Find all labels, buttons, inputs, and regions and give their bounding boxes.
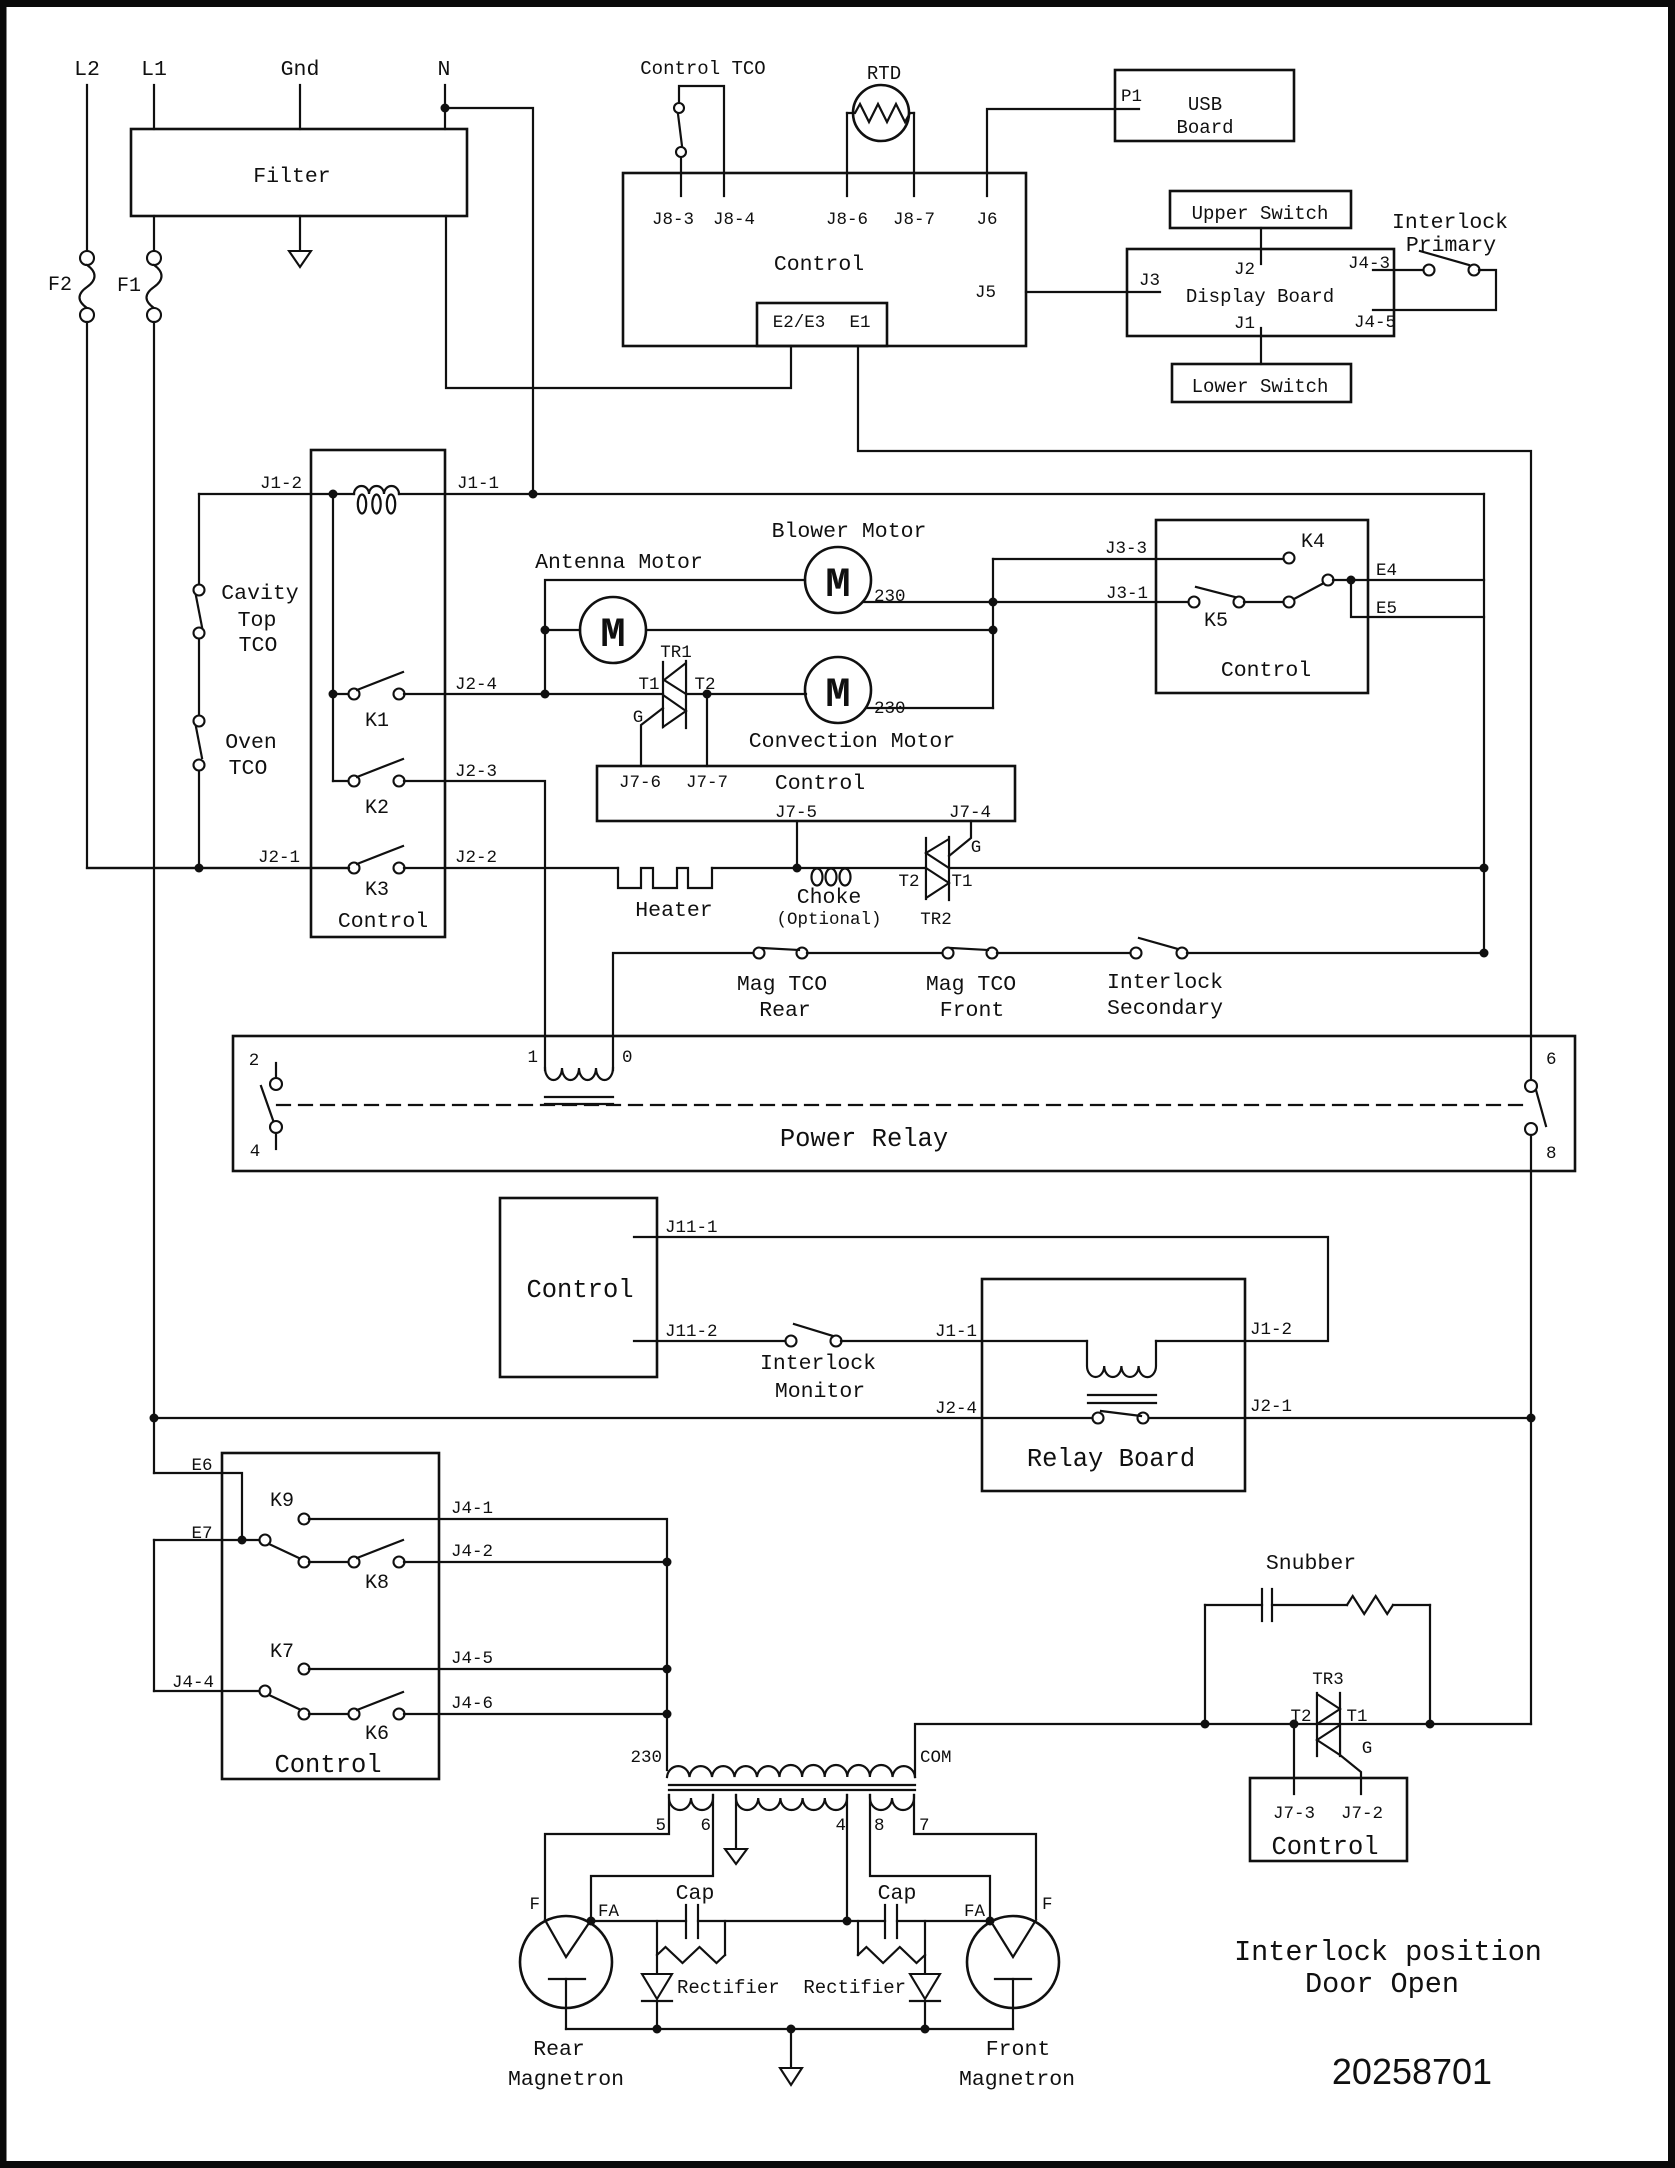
junction J7-3 tap <box>1290 1720 1299 1729</box>
junction rectifier front bottom <box>921 2025 930 2034</box>
motor antenna <box>580 597 646 663</box>
wire pin4 drop <box>846 1795 848 1921</box>
svg-text:Interlock: Interlock <box>1107 971 1223 995</box>
svg-text:Cap: Cap <box>676 1882 715 1906</box>
svg-text:Primary: Primary <box>1406 234 1496 258</box>
wire N below filter to E2/E3 <box>446 216 791 388</box>
junction snubber right <box>1426 1720 1435 1729</box>
svg-text:2: 2 <box>249 1051 260 1071</box>
svg-text:Control: Control <box>1221 659 1311 683</box>
switch mag TCO front <box>943 948 954 959</box>
ground HV center tap <box>735 1795 737 1849</box>
junction rear FA <box>587 1917 596 1926</box>
wire convection right <box>866 707 993 709</box>
relay board box <box>982 1279 1245 1491</box>
wire mag row right <box>997 952 1131 954</box>
switch K6 <box>349 1709 360 1720</box>
wire J1 <box>1260 328 1262 364</box>
svg-text:J11-2: J11-2 <box>665 1322 718 1342</box>
svg-text:K6: K6 <box>365 1723 389 1746</box>
svg-text:Control: Control <box>1271 1833 1378 1862</box>
wire TCO chain middle <box>198 639 200 715</box>
svg-text:J8-7: J8-7 <box>893 210 935 230</box>
wire cathode bottom row <box>566 2028 1013 2030</box>
wire J7-7 drop <box>706 694 708 766</box>
svg-text:Rectifier: Rectifier <box>803 1977 906 1999</box>
connector E2/E3 E1 box <box>757 303 887 346</box>
svg-text:FA: FA <box>598 1902 620 1922</box>
switch power relay left <box>275 1063 277 1078</box>
svg-text:Rear: Rear <box>533 2038 585 2062</box>
wire J7-5 drop <box>796 821 798 868</box>
wire pin7 to front F <box>914 1795 1036 1918</box>
switch relay board contact <box>1093 1413 1104 1424</box>
TCO chain wire top <box>198 494 200 585</box>
wire J4-1 row <box>309 1519 667 1770</box>
wire TCO chain bottom <box>198 771 200 868</box>
transformer relay board coil <box>1087 1341 1156 1377</box>
svg-text:L1: L1 <box>141 58 167 82</box>
choke coil <box>812 869 823 886</box>
svg-text:J4-1: J4-1 <box>451 1499 493 1519</box>
svg-text:RTD: RTD <box>867 63 901 85</box>
svg-text:J4-6: J4-6 <box>451 1694 493 1714</box>
svg-text:Cavity: Cavity <box>221 582 299 606</box>
svg-text:J4-2: J4-2 <box>451 1542 493 1562</box>
motor convection <box>805 657 871 723</box>
junction snubber left <box>1201 1720 1210 1729</box>
wire antenna right <box>646 629 993 631</box>
junction K1 feed <box>329 690 338 699</box>
svg-text:J3: J3 <box>1139 271 1160 291</box>
junction J4-2 rail <box>663 1558 672 1567</box>
magnetron rear <box>520 1916 612 2008</box>
pin J8-6 leg <box>846 113 848 196</box>
wire J4-4 row <box>154 1690 260 1692</box>
wire E7 row <box>154 1539 260 1541</box>
svg-text:K4: K4 <box>1301 531 1325 554</box>
wire L1 drop <box>153 85 155 129</box>
wire J4-3 <box>1373 269 1424 271</box>
svg-text:Relay Board: Relay Board <box>1027 1445 1195 1474</box>
junction J7-7 tap <box>703 690 712 699</box>
transformer HV secondary winding <box>736 1795 847 1810</box>
svg-text:J2-1: J2-1 <box>1250 1397 1292 1417</box>
svg-text:0: 0 <box>622 1048 633 1068</box>
svg-text:230: 230 <box>630 1748 662 1768</box>
svg-text:COM: COM <box>920 1748 952 1768</box>
svg-text:E2/E3: E2/E3 <box>773 313 826 333</box>
wire COM riser <box>915 1724 1531 1777</box>
heater element <box>618 868 712 888</box>
rectifier front <box>910 1974 940 1999</box>
svg-text:Interlock position: Interlock position <box>1234 1936 1542 1969</box>
control box K1 K2 K3 <box>311 450 445 937</box>
svg-text:J3-3: J3-3 <box>1105 539 1147 559</box>
svg-text:Monitor: Monitor <box>775 1380 865 1404</box>
svg-text:Magnetron: Magnetron <box>959 2068 1075 2092</box>
resistor snubber <box>1272 1604 1347 1606</box>
svg-text:K7: K7 <box>270 1641 294 1664</box>
control box K4 K5 <box>1156 520 1368 693</box>
filter box <box>131 129 467 216</box>
svg-text:20258701: 20258701 <box>1332 2051 1492 2092</box>
lower switch box <box>1172 364 1351 402</box>
switch K3 <box>349 863 360 874</box>
junction J3-1 column <box>989 598 998 607</box>
svg-text:G: G <box>971 838 982 858</box>
wire cap to pin4 <box>698 1920 885 1922</box>
svg-text:K9: K9 <box>270 1490 294 1513</box>
control box K6-K9 <box>222 1453 439 1779</box>
wire K4K5 feed column <box>992 559 994 708</box>
wire long J2-4 row <box>154 1417 1092 1419</box>
svg-text:J2-3: J2-3 <box>455 762 497 782</box>
wire N drop <box>444 85 446 129</box>
svg-text:E1: E1 <box>849 313 870 333</box>
wire K5 middle <box>1244 601 1284 603</box>
svg-text:Rear: Rear <box>759 999 811 1023</box>
wire right rail J1-1 column <box>1483 494 1485 953</box>
wire J4-5 loop <box>1373 270 1496 310</box>
resistor rear bleed <box>656 1921 658 1974</box>
svg-text:N: N <box>438 58 451 82</box>
svg-text:Choke: Choke <box>797 886 862 910</box>
svg-text:Control: Control <box>274 1751 381 1780</box>
junction rectifier rear bottom <box>653 2025 662 2034</box>
junction right rail J2-1 <box>1527 1414 1536 1423</box>
junction secondary rail <box>1480 949 1489 958</box>
svg-text:J3-1: J3-1 <box>1106 584 1148 604</box>
wire heater to choke <box>712 867 926 869</box>
svg-text:J8-3: J8-3 <box>652 210 694 230</box>
motor blower <box>805 547 871 613</box>
svg-text:Blower Motor: Blower Motor <box>772 520 927 544</box>
svg-text:8: 8 <box>1546 1144 1557 1164</box>
resistor front bleed <box>857 1921 859 1955</box>
svg-text:6: 6 <box>700 1816 711 1836</box>
svg-text:Control: Control <box>338 910 428 934</box>
svg-text:Upper Switch: Upper Switch <box>1192 203 1329 225</box>
svg-text:M: M <box>825 671 850 719</box>
wire common to E4 <box>1333 579 1484 581</box>
svg-text:1: 1 <box>527 1048 538 1068</box>
svg-text:J6: J6 <box>976 210 997 230</box>
svg-text:Secondary: Secondary <box>1107 997 1223 1021</box>
svg-text:T1: T1 <box>638 675 659 695</box>
wire J5 to J3 <box>1026 291 1160 293</box>
wire L1 down to E6 corner <box>153 322 155 1473</box>
transformer HV core <box>669 1784 915 1786</box>
junction J4-6 rail <box>663 1710 672 1719</box>
capacitor snubber <box>1205 1604 1262 1606</box>
wire J4-5 row <box>309 1668 667 1670</box>
svg-text:L2: L2 <box>74 58 100 82</box>
wire mag TCO row <box>613 953 754 1070</box>
svg-text:TCO: TCO <box>239 634 278 658</box>
svg-text:J1-2: J1-2 <box>260 474 302 494</box>
svg-text:K1: K1 <box>365 710 389 733</box>
junction N column to row <box>529 490 538 499</box>
wire K1 stub <box>333 693 349 695</box>
wire J2-1 row left <box>87 867 349 869</box>
wire J2-3 row to transformer column <box>404 781 545 1070</box>
svg-text:K3: K3 <box>365 879 389 902</box>
svg-text:TR3: TR3 <box>1312 1670 1344 1690</box>
svg-text:Mag TCO: Mag TCO <box>926 973 1016 997</box>
svg-text:K5: K5 <box>1204 610 1228 633</box>
wire E7 to J4-4 column <box>153 1540 155 1691</box>
svg-text:Board: Board <box>1176 117 1233 139</box>
wire coil feed column <box>332 494 334 781</box>
junction blower column to J2-4 <box>541 690 550 699</box>
svg-text:J1-2: J1-2 <box>1250 1320 1292 1340</box>
wire J11-2 <box>634 1340 786 1342</box>
svg-text:Lower Switch: Lower Switch <box>1192 376 1329 398</box>
switch interlock secondary <box>1131 948 1142 959</box>
ground bottom <box>790 2029 792 2068</box>
svg-text:E5: E5 <box>1376 599 1397 619</box>
svg-text:FA: FA <box>964 1902 986 1922</box>
wire J4-6 row <box>404 1713 667 1715</box>
control box J11 <box>500 1198 657 1377</box>
svg-text:(Optional): (Optional) <box>776 910 881 930</box>
svg-text:Oven: Oven <box>225 731 277 755</box>
wire E6 <box>154 1473 242 1540</box>
junction J7-5 choke row <box>793 864 802 873</box>
svg-text:Mag TCO: Mag TCO <box>737 973 827 997</box>
svg-text:F1: F1 <box>117 275 141 298</box>
switch K2 <box>349 776 360 787</box>
svg-text:4: 4 <box>250 1142 261 1162</box>
wire interlock secondary right <box>1187 952 1484 954</box>
wire front cap to FA <box>897 1920 990 1922</box>
wire J1-2 / J1-1 row <box>199 493 354 495</box>
svg-text:Power Relay: Power Relay <box>780 1125 948 1154</box>
wire pin5 to rear F <box>545 1795 669 1918</box>
svg-text:Door Open: Door Open <box>1305 1968 1459 2001</box>
svg-text:J2: J2 <box>1234 260 1255 280</box>
svg-text:J8-6: J8-6 <box>826 210 868 230</box>
svg-text:Interlock: Interlock <box>1392 211 1508 235</box>
wire pin6 to rear FA <box>591 1795 713 1921</box>
junction E4/E5 <box>1347 576 1356 585</box>
junction TR2 row right rail <box>1480 864 1489 873</box>
svg-text:G: G <box>1362 1739 1373 1759</box>
svg-text:J2-1: J2-1 <box>258 848 300 868</box>
svg-text:J1-1: J1-1 <box>457 474 499 494</box>
svg-text:F: F <box>1042 1895 1053 1915</box>
wire J2-2 row to heater <box>404 867 618 869</box>
svg-text:Front: Front <box>986 2038 1051 2062</box>
svg-text:J4-5: J4-5 <box>451 1649 493 1669</box>
svg-text:Control TCO: Control TCO <box>640 58 765 80</box>
wire L2 down to J2-1 row <box>87 322 349 868</box>
switch power relay right <box>1525 1080 1537 1092</box>
svg-text:J2-4: J2-4 <box>455 675 497 695</box>
junction front FA <box>986 1917 995 1926</box>
svg-text:P1: P1 <box>1121 87 1142 107</box>
svg-text:Cap: Cap <box>878 1882 917 1906</box>
svg-text:Snubber: Snubber <box>1266 1552 1356 1576</box>
wire Gnd drop <box>299 85 301 129</box>
USB board <box>1115 70 1294 141</box>
svg-text:6: 6 <box>1546 1050 1557 1070</box>
svg-text:Rectifier: Rectifier <box>677 1977 780 1999</box>
junction J4-5 rail <box>663 1665 672 1674</box>
svg-text:Convection Motor: Convection Motor <box>749 730 955 754</box>
switch K5 <box>1189 597 1200 608</box>
upper switch box <box>1170 191 1351 228</box>
svg-text:Control: Control <box>526 1276 633 1305</box>
svg-text:USB: USB <box>1188 94 1222 116</box>
wire J2-1 row <box>1149 1417 1531 1419</box>
svg-text:T1: T1 <box>951 872 972 892</box>
svg-text:J7-6: J7-6 <box>619 773 661 793</box>
control box J7 <box>597 766 1015 821</box>
switch mag TCO rear <box>754 948 765 959</box>
wire E5 <box>1351 580 1484 617</box>
wire blower left <box>545 580 805 694</box>
wire L1 below filter <box>153 216 155 251</box>
svg-text:Magnetron: Magnetron <box>508 2068 624 2092</box>
svg-text:Heater: Heater <box>635 899 712 923</box>
svg-text:Top: Top <box>238 609 277 633</box>
svg-text:J2-4: J2-4 <box>935 1399 977 1419</box>
junction coil feed <box>329 490 338 499</box>
relay coil K relay <box>354 486 399 494</box>
junction L1 long row <box>150 1414 159 1423</box>
wire J3-3 row <box>993 558 1284 560</box>
wire N to J1-1 column <box>445 108 533 494</box>
svg-text:J7-7: J7-7 <box>686 773 728 793</box>
wire blower right J3-1 row <box>863 601 1189 603</box>
wire K9 to K8 <box>309 1561 349 1563</box>
svg-text:TCO: TCO <box>229 757 268 781</box>
svg-text:F: F <box>529 1895 540 1915</box>
switch interlock monitor <box>786 1336 797 1347</box>
wire L2 drop <box>86 85 88 251</box>
svg-text:4: 4 <box>835 1816 846 1836</box>
svg-text:J1: J1 <box>1234 314 1255 334</box>
wire pin8 to front FA <box>870 1795 990 1921</box>
wire rear FA row <box>591 1920 686 1922</box>
svg-text:J2-2: J2-2 <box>455 848 497 868</box>
svg-text:Filter: Filter <box>253 165 330 189</box>
ground below filter <box>299 216 301 251</box>
pin J8-7 leg <box>913 113 915 196</box>
wire J4-2 row <box>404 1561 667 1563</box>
svg-text:T1: T1 <box>1346 1707 1367 1727</box>
junction N tap <box>441 104 450 113</box>
svg-text:F2: F2 <box>48 274 72 297</box>
magnetron front <box>967 1916 1059 2008</box>
svg-text:M: M <box>600 611 625 659</box>
wire E1 to right rail <box>858 346 1531 1080</box>
rectifier rear <box>642 1974 672 1999</box>
wire J11-1 to relay board J1-2 <box>634 1237 1328 1341</box>
svg-text:E4: E4 <box>1376 561 1397 581</box>
junction antenna right <box>989 626 998 635</box>
transformer rear filament winding <box>669 1795 713 1810</box>
svg-text:J1-1: J1-1 <box>935 1322 977 1342</box>
svg-text:J7-3: J7-3 <box>1273 1804 1315 1824</box>
svg-text:M: M <box>825 561 850 609</box>
wire antenna left <box>545 629 580 631</box>
svg-text:230: 230 <box>874 587 906 607</box>
wire to K6 <box>309 1713 349 1715</box>
svg-text:Antenna Motor: Antenna Motor <box>535 551 703 575</box>
wire TR1 to convection <box>686 693 806 695</box>
svg-text:K2: K2 <box>365 797 389 820</box>
wire K2 stub <box>333 780 349 782</box>
svg-text:Front: Front <box>940 999 1005 1023</box>
wire monitor to relay board coil <box>841 1340 1087 1342</box>
wire J7-3 drop <box>1293 1724 1295 1794</box>
junction TCO to J2-1 row <box>195 864 204 873</box>
svg-text:T2: T2 <box>898 872 919 892</box>
display board <box>1127 249 1394 336</box>
wire J6 to USB P1 <box>987 109 1139 196</box>
svg-text:Interlock: Interlock <box>760 1352 876 1376</box>
control box TR3 <box>1250 1778 1407 1861</box>
svg-text:Display Board: Display Board <box>1186 286 1334 308</box>
switch K7 common <box>260 1686 271 1697</box>
svg-text:Control: Control <box>775 772 865 796</box>
junction E6 E7 <box>238 1536 247 1545</box>
svg-text:TR2: TR2 <box>920 910 952 930</box>
wire J2 <box>1260 228 1262 264</box>
switch K5 second stage <box>1284 597 1295 608</box>
junction antenna tee left <box>541 626 550 635</box>
svg-text:8: 8 <box>874 1816 885 1836</box>
wire mag row middle <box>807 952 943 954</box>
svg-text:K8: K8 <box>365 1572 389 1595</box>
svg-text:J7-2: J7-2 <box>1341 1804 1383 1824</box>
junction pin4 row <box>843 1917 852 1926</box>
wire J2-4 row <box>404 693 663 695</box>
switch K8 <box>349 1557 360 1568</box>
switch interlock primary <box>1424 265 1435 276</box>
svg-text:Control: Control <box>774 253 864 277</box>
svg-text:J8-4: J8-4 <box>713 210 755 230</box>
svg-text:Gnd: Gnd <box>281 58 320 82</box>
dashed relay linkage <box>277 1104 1528 1106</box>
control box main <box>623 173 1026 346</box>
svg-text:J4-5: J4-5 <box>1354 313 1396 333</box>
wire right rail below relay <box>1530 1135 1532 1724</box>
svg-text:J5: J5 <box>975 283 996 303</box>
wire TR2 row right <box>949 867 1484 869</box>
switch K1 <box>349 689 360 700</box>
power relay box <box>233 1036 1575 1171</box>
svg-text:J11-1: J11-1 <box>665 1218 718 1238</box>
junction ground bottom <box>787 2025 796 2034</box>
transformer front filament winding <box>870 1795 914 1810</box>
